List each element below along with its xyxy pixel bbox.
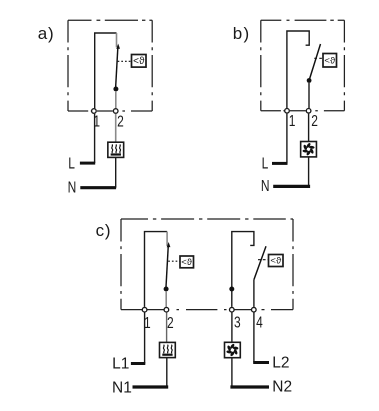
contact tick arrow a [116, 44, 120, 49]
dotted link to temperature sensor c-left [168, 260, 180, 262]
svg-text:2: 2 [311, 111, 318, 129]
wire fan to N2 c [231, 358, 233, 387]
terminal 1 c [142, 307, 147, 312]
terminal 1 b [285, 109, 290, 114]
wire switched contact upper segment c-left (gray) [166, 232, 168, 246]
svg-text:2: 2 [117, 112, 124, 130]
thermostat sensor box a [132, 55, 147, 68]
svg-text:L2: L2 [272, 354, 289, 371]
terminal 2 b [306, 109, 311, 114]
wire terminal4 down to L2 c [253, 313, 255, 363]
wire terminal1 down to L1 c [144, 313, 146, 364]
wire blade pivot to terminal 4 c-right [253, 280, 255, 307]
wire dot to terminal 2 b [308, 83, 310, 108]
fan M2 c [225, 342, 241, 357]
svg-text:L: L [68, 154, 75, 172]
L1 supply bar c [131, 362, 145, 365]
wire terminal1 down to L b [286, 114, 288, 164]
L supply bar b [272, 162, 288, 165]
svg-text:2: 2 [167, 313, 174, 331]
enclosure box c (dash-dot) [121, 219, 293, 310]
terminal 1 a [92, 109, 97, 114]
svg-text:<ϑ: <ϑ [133, 56, 145, 67]
svg-text:a): a) [38, 24, 55, 43]
thermostat sensor box b [323, 54, 337, 68]
wire terminal2 down to heater c [166, 313, 168, 343]
junction dot c-left [164, 287, 169, 292]
svg-text:1: 1 [289, 111, 296, 129]
wire dot to terminal 2 a (gray) [115, 91, 117, 108]
dotted link to temperature sensor b [314, 57, 323, 59]
thermostat sensor box c-left [180, 256, 194, 268]
wire terminal1 down to L a [94, 114, 96, 163]
heater E1 a [108, 142, 124, 157]
svg-text:N: N [68, 178, 77, 196]
svg-text:<ϑ: <ϑ [181, 257, 193, 268]
svg-text:3: 3 [234, 313, 241, 331]
wire terminal1 up and over (loop) c-left [145, 232, 168, 307]
svg-text:c): c) [96, 221, 112, 240]
wire terminal2 down to heater a (gray) [115, 114, 117, 142]
wire terminal1 up and over (loop) b [287, 31, 309, 108]
wire terminal3 down to fan c [231, 313, 233, 343]
dotted link to temperature sensor a [118, 60, 132, 62]
svg-text:4: 4 [256, 313, 263, 331]
svg-text:b): b) [233, 24, 251, 43]
junction dot c-right [229, 287, 234, 292]
N supply bar b [273, 185, 310, 188]
heater E2 c [160, 342, 176, 357]
wire terminal3 up and over (loop) c-right [232, 232, 254, 307]
terminal 2 c [164, 307, 169, 312]
svg-text:<ϑ: <ϑ [270, 256, 282, 267]
wire heater to N a [115, 158, 117, 188]
N1 supply bar c [133, 385, 169, 388]
thermostat sensor box c-right [269, 255, 284, 267]
terminal 2 a [113, 109, 118, 114]
enclosure box b (dash-dot) [261, 20, 345, 111]
N2 supply bar c [230, 385, 269, 388]
terminal 4 c [252, 307, 257, 312]
svg-text:L: L [262, 154, 269, 172]
junction dot a [113, 87, 118, 92]
dotted link to temperature sensor c-right [258, 259, 269, 261]
contact tick arrow c-left [167, 242, 171, 247]
svg-text:L1: L1 [112, 355, 129, 372]
svg-text:N1: N1 [112, 379, 132, 396]
L supply bar a [80, 162, 95, 165]
switch blade a (thermostat contact, closed) [116, 48, 118, 88]
terminal 3 c [230, 307, 235, 312]
enclosure box a (dash-dot) [68, 20, 152, 111]
junction dot b [307, 78, 312, 83]
N supply bar a [80, 186, 116, 189]
fan M1 b [301, 142, 317, 157]
wire terminal1 up and over (loop) a [95, 33, 117, 108]
wire heater to N1 c [166, 358, 168, 387]
switch blade b (thermostat contact, open) [309, 44, 320, 80]
switch blade c-left (thermostat contact, closed) [166, 247, 168, 287]
wire dot to terminal 2 c-left (gray) [165, 291, 167, 307]
svg-text:N: N [261, 176, 270, 194]
wire fan to N b [308, 157, 310, 186]
wire switched contact upper segment a (gray) [116, 33, 118, 47]
L2 supply bar c [253, 361, 269, 364]
svg-text:N2: N2 [272, 378, 292, 395]
wire terminal2 down to fan b [308, 114, 310, 141]
switch blade c-right (thermostat contact, open) [254, 246, 266, 279]
svg-text:<ϑ: <ϑ [324, 56, 336, 67]
